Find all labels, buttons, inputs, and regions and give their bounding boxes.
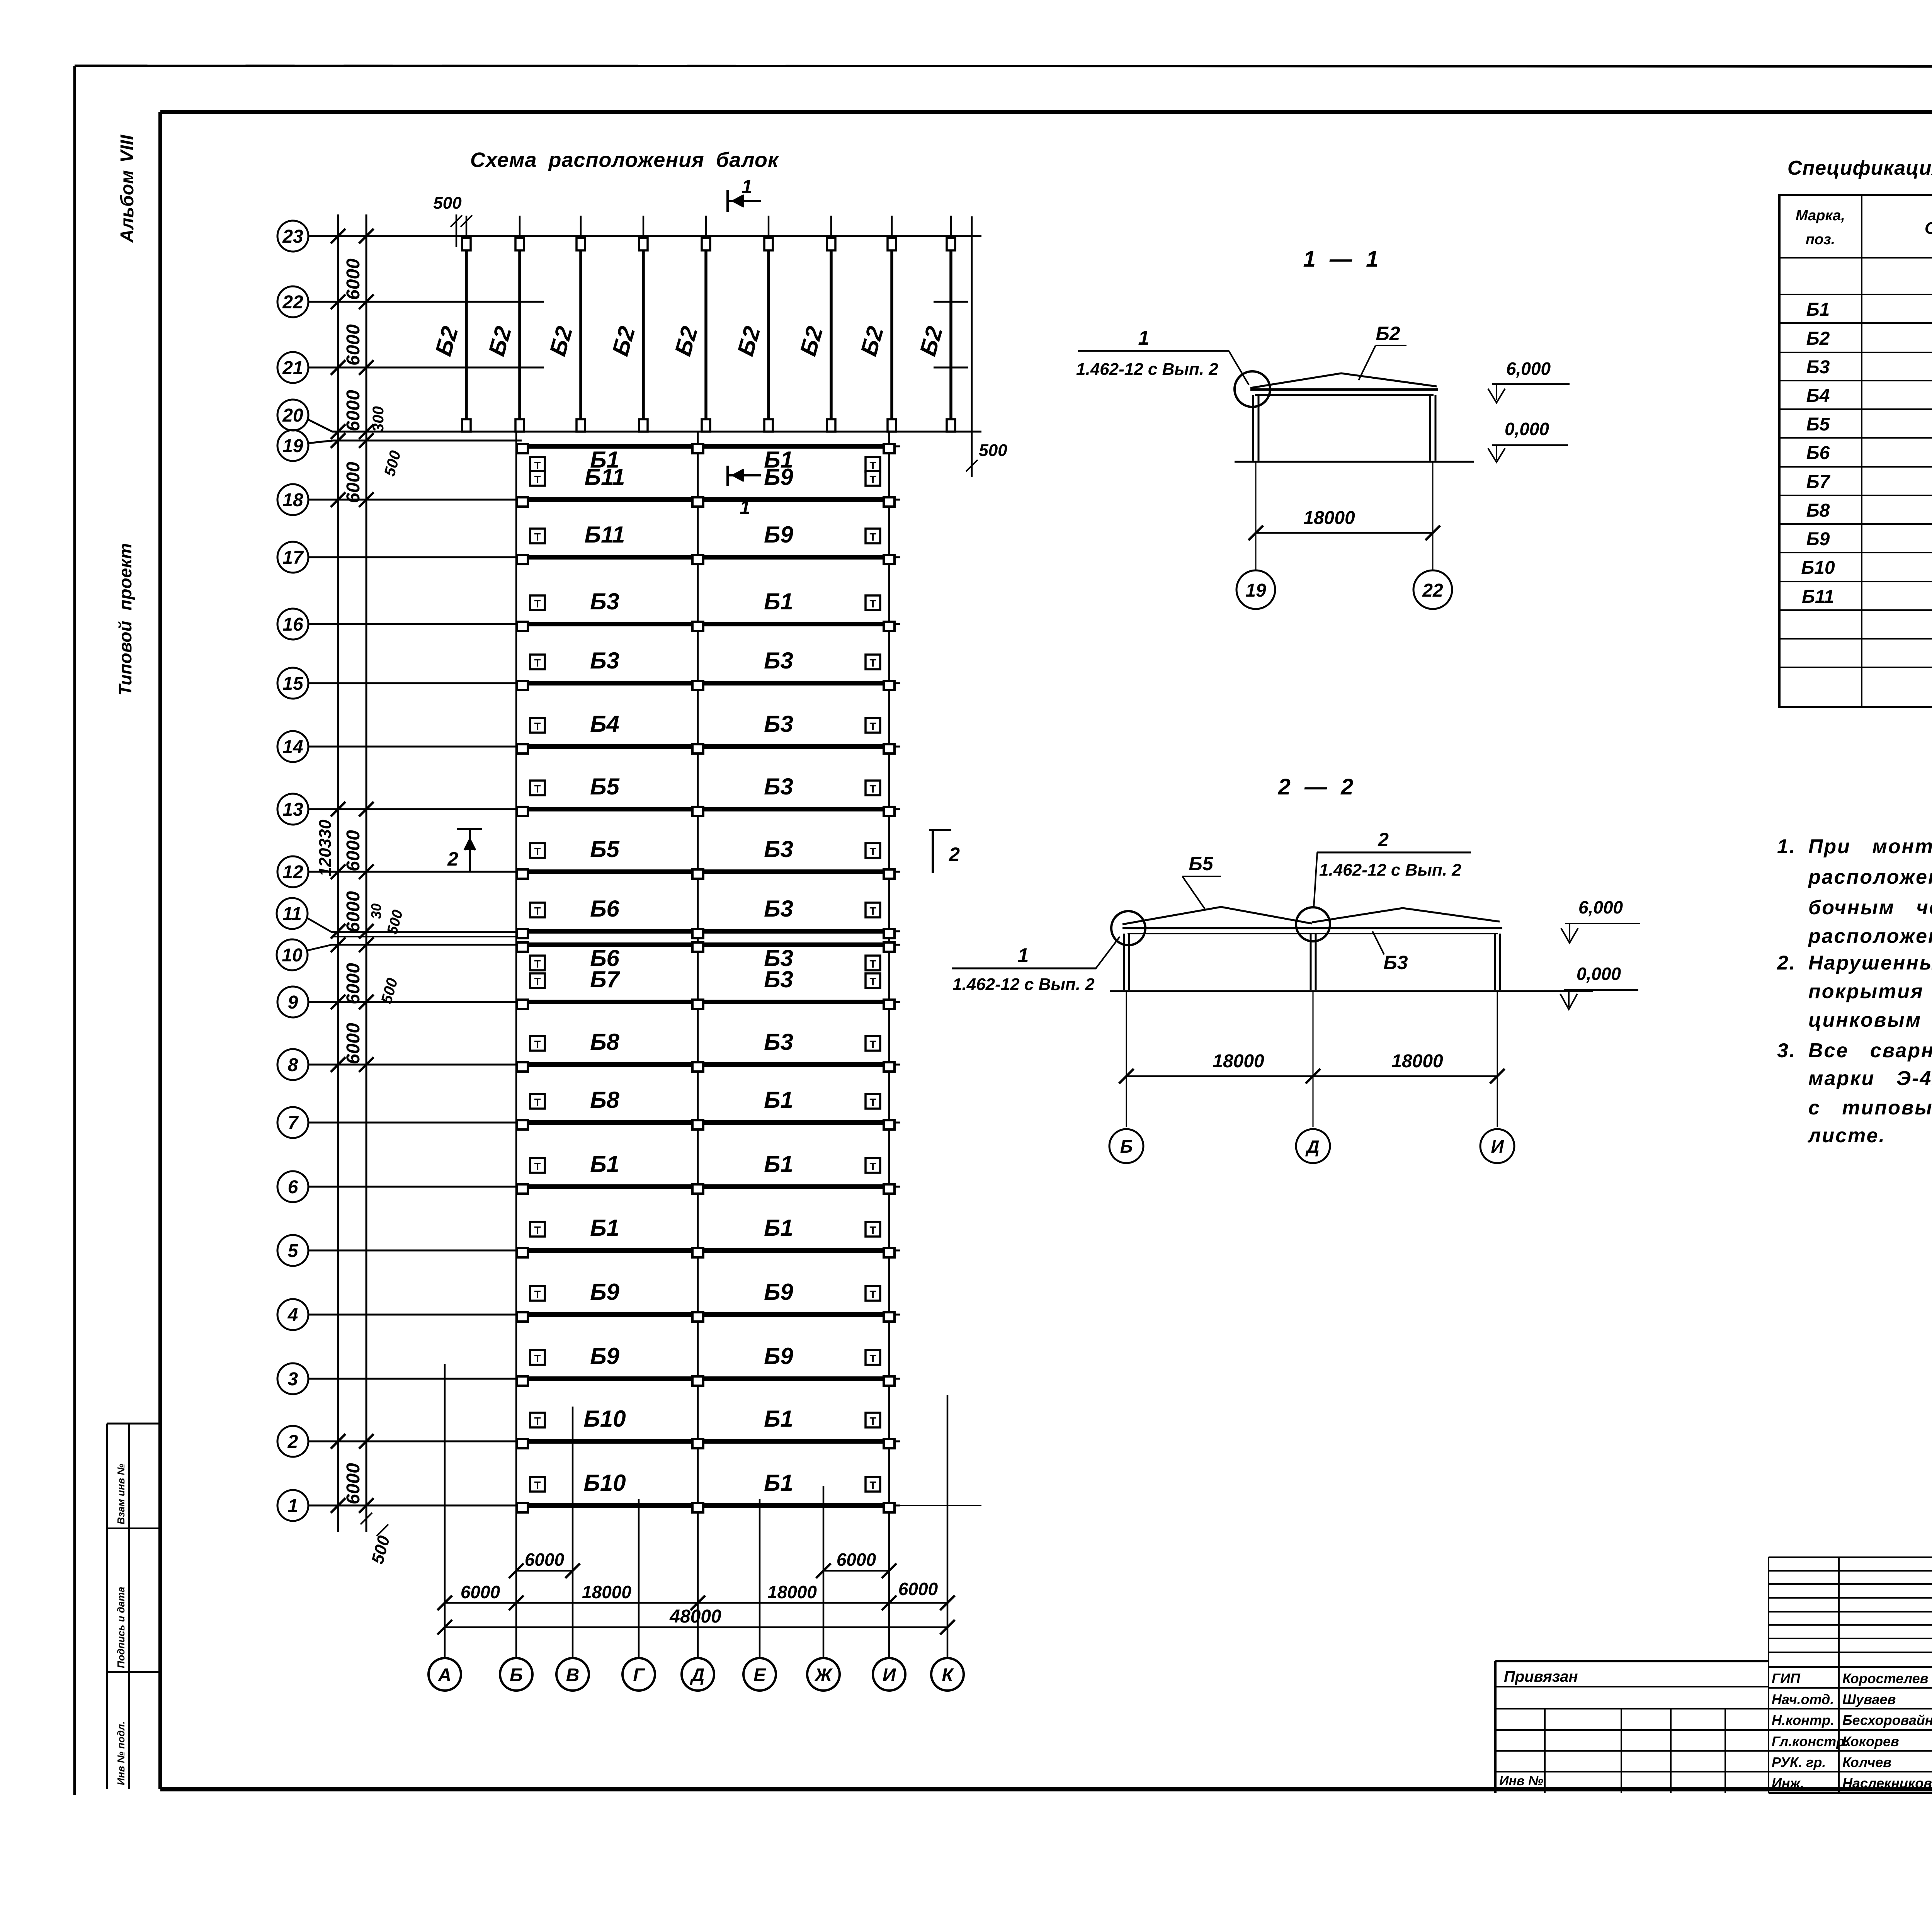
extra axis line near K bbox=[971, 216, 973, 477]
svg-text:Б1: Б1 bbox=[764, 1151, 793, 1177]
bottom total dimension 48000 bbox=[445, 1626, 947, 1628]
svg-text:6,000: 6,000 bbox=[1578, 897, 1623, 917]
axis line 22 bbox=[308, 301, 544, 303]
svg-text:Обозначение: Обозначение bbox=[1925, 219, 1932, 238]
beam row axis 15 bbox=[277, 668, 308, 699]
svg-text:Б9: Б9 bbox=[590, 1279, 619, 1305]
svg-text:0,000: 0,000 bbox=[1505, 419, 1549, 439]
svg-text:12: 12 bbox=[282, 862, 303, 883]
beam Б1 row 19 left bbox=[522, 444, 692, 449]
beam row axis 9 bbox=[277, 987, 308, 1017]
svg-text:Наслекникова: Наслекникова bbox=[1842, 1775, 1932, 1791]
svg-text:Г: Г bbox=[633, 1665, 645, 1686]
beam row axis 18 bbox=[277, 484, 308, 515]
beam row axis 13 bbox=[277, 794, 308, 825]
svg-text:500: 500 bbox=[979, 441, 1007, 460]
svg-text:500: 500 bbox=[433, 194, 462, 213]
svg-text:Т: Т bbox=[869, 905, 876, 917]
axis Zh vertical bbox=[823, 1486, 825, 1658]
svg-text:поз.: поз. bbox=[1806, 231, 1835, 248]
section mark 2 left bbox=[457, 828, 482, 830]
title block left extension bbox=[1494, 1661, 1497, 1793]
detail circle left section 2-2 bbox=[1111, 911, 1145, 945]
svg-text:1.: 1. bbox=[1777, 835, 1796, 858]
svg-text:Гл.констр.: Гл.констр. bbox=[1772, 1733, 1849, 1749]
svg-text:Т: Т bbox=[869, 958, 876, 970]
svg-text:Т: Т bbox=[869, 1479, 876, 1491]
svg-text:Т: Т bbox=[534, 1352, 541, 1364]
svg-text:Б3: Б3 bbox=[764, 896, 793, 922]
svg-text:Б1: Б1 bbox=[764, 589, 793, 614]
svg-text:20: 20 bbox=[282, 405, 303, 426]
svg-text:1: 1 bbox=[1018, 944, 1029, 967]
axis circle Б bbox=[500, 1658, 532, 1691]
svg-text:6,000: 6,000 bbox=[1506, 359, 1551, 379]
svg-text:Т: Т bbox=[534, 1479, 541, 1491]
beam row axis 7 bbox=[277, 1107, 308, 1138]
svg-text:И: И bbox=[883, 1665, 896, 1686]
svg-text:Б4: Б4 bbox=[590, 711, 619, 737]
svg-text:Б10: Б10 bbox=[583, 1470, 626, 1496]
svg-text:1.462-12 с Вып. 2: 1.462-12 с Вып. 2 bbox=[1076, 360, 1218, 379]
beam Б9 row 4 left bbox=[522, 1312, 692, 1317]
svg-text:16: 16 bbox=[282, 614, 303, 635]
beam B2 #8 bbox=[891, 216, 893, 239]
svg-text:6000: 6000 bbox=[837, 1550, 876, 1570]
svg-text:23: 23 bbox=[282, 226, 303, 247]
beam Б9 row 17 right bbox=[704, 555, 883, 560]
svg-text:Б9: Б9 bbox=[590, 1343, 619, 1369]
beam Б9 row 18 right bbox=[704, 497, 883, 502]
beam Б3 row 13 right bbox=[704, 807, 883, 811]
beam Б3 row 8 right bbox=[704, 1062, 883, 1067]
svg-text:Т: Т bbox=[534, 459, 541, 471]
axis 1 extension right bbox=[900, 1505, 981, 1506]
beam Б9 row 3 left bbox=[522, 1376, 692, 1381]
beam row axis 17 bbox=[277, 542, 308, 573]
svg-text:Б3: Б3 bbox=[590, 589, 619, 614]
axis circle В bbox=[556, 1658, 589, 1691]
svg-text:Б7: Б7 bbox=[1806, 472, 1831, 492]
svg-text:Б3: Б3 bbox=[590, 648, 619, 674]
svg-text:Б9: Б9 bbox=[764, 464, 793, 490]
svg-text:10: 10 bbox=[282, 945, 303, 966]
beam B2 #3 bbox=[580, 216, 582, 239]
beam Б6 row 11 left bbox=[522, 929, 692, 934]
svg-text:Т: Т bbox=[869, 720, 876, 732]
svg-text:6000: 6000 bbox=[898, 1579, 938, 1599]
svg-text:9: 9 bbox=[288, 992, 298, 1013]
svg-text:Б11: Б11 bbox=[1802, 587, 1834, 607]
axis circle Д bbox=[682, 1658, 714, 1691]
beam Б11 row 17 left bbox=[522, 555, 692, 560]
svg-text:Схема расположения балок: Схема расположения балок bbox=[470, 148, 779, 172]
beam B2 #6 bbox=[768, 216, 770, 239]
section 2-2 roof left span bbox=[1122, 907, 1312, 924]
svg-text:Коростелев: Коростелев bbox=[1842, 1670, 1928, 1686]
section 2-2 roof right span bbox=[1312, 908, 1500, 922]
svg-text:15: 15 bbox=[282, 674, 304, 694]
beam row axis 11 bbox=[277, 898, 308, 929]
beam joint tick bbox=[502, 301, 537, 303]
svg-text:Б3: Б3 bbox=[764, 648, 793, 674]
svg-text:Спецификация элементов к схеме: Спецификация элементов к схеме расположе… bbox=[1787, 157, 1932, 179]
beam Б9 row 4 right bbox=[704, 1312, 883, 1317]
svg-text:Б4: Б4 bbox=[1806, 386, 1830, 406]
beam row axis 12 bbox=[277, 856, 308, 887]
svg-text:Т: Т bbox=[869, 598, 876, 610]
svg-text:К: К bbox=[942, 1665, 954, 1686]
svg-text:Д: Д bbox=[690, 1665, 705, 1686]
svg-text:0,000: 0,000 bbox=[1577, 964, 1621, 984]
svg-text:листе.: листе. bbox=[1807, 1124, 1886, 1147]
beam B2 #9 bbox=[950, 216, 952, 239]
svg-text:Нач.отд.: Нач.отд. bbox=[1772, 1691, 1834, 1707]
svg-text:бочным чертежам и знака ор: бочным чертежам и знака ориентации на сх… bbox=[1808, 896, 1932, 919]
svg-text:При монтаже балок особое в: При монтаже балок особое внимание обрати… bbox=[1808, 835, 1932, 858]
svg-text:марки Э-42А по ГОСТу 946: марки Э-42А по ГОСТу 9467-75 в соответст… bbox=[1808, 1067, 1932, 1090]
svg-text:18: 18 bbox=[282, 490, 303, 510]
beam Б1 row 5 right bbox=[704, 1248, 883, 1253]
svg-text:Б3: Б3 bbox=[764, 711, 793, 737]
sidebar table left bbox=[106, 1424, 108, 1789]
svg-text:Т: Т bbox=[534, 473, 541, 485]
svg-text:Н.контр.: Н.контр. bbox=[1772, 1712, 1834, 1728]
svg-text:Т: Т bbox=[534, 976, 541, 988]
svg-text:Б7: Б7 bbox=[590, 966, 620, 992]
svg-text:Т: Т bbox=[869, 1288, 876, 1300]
axis line 20 bbox=[308, 419, 981, 432]
svg-text:2: 2 bbox=[287, 1432, 298, 1452]
svg-text:Шуваев: Шуваев bbox=[1842, 1691, 1896, 1707]
svg-text:Т: Т bbox=[869, 1096, 876, 1108]
svg-text:22: 22 bbox=[1422, 580, 1443, 601]
svg-text:Б1: Б1 bbox=[764, 1087, 793, 1113]
axis E vertical bbox=[759, 1499, 761, 1658]
svg-text:Т: Т bbox=[534, 783, 541, 795]
axis D vertical bbox=[697, 432, 699, 1658]
svg-text:Т: Т bbox=[869, 845, 876, 857]
beam B2 #7 bbox=[830, 216, 832, 239]
section 2-2 ground line bbox=[1110, 990, 1593, 992]
svg-text:Т: Т bbox=[534, 1288, 541, 1300]
svg-text:Инв № подл.: Инв № подл. bbox=[115, 1721, 127, 1785]
svg-text:6000: 6000 bbox=[343, 390, 364, 431]
beam Б1 row 6 right bbox=[704, 1184, 883, 1189]
svg-text:Т: Т bbox=[534, 1096, 541, 1108]
svg-text:Б1: Б1 bbox=[1806, 299, 1830, 320]
svg-text:Б3: Б3 bbox=[1383, 952, 1408, 973]
outer border left bbox=[73, 66, 76, 1795]
axis circle I section bbox=[1480, 1129, 1514, 1163]
bottom dimension line 6000 Zh-I bbox=[823, 1570, 889, 1572]
svg-text:Т: Т bbox=[869, 1415, 876, 1427]
svg-text:Колчев: Колчев bbox=[1842, 1754, 1891, 1770]
svg-text:18000: 18000 bbox=[767, 1582, 817, 1602]
beam joint tick bbox=[449, 367, 484, 369]
svg-text:120330: 120330 bbox=[316, 820, 335, 876]
svg-text:Б3: Б3 bbox=[764, 774, 793, 799]
svg-text:Б6: Б6 bbox=[590, 896, 619, 922]
section 1-1 column right bbox=[1429, 395, 1431, 461]
svg-text:3.: 3. bbox=[1777, 1039, 1796, 1062]
svg-text:11: 11 bbox=[282, 904, 302, 924]
sidebar table middle bbox=[128, 1424, 130, 1789]
svg-text:Подпись и дата: Подпись и дата bbox=[115, 1587, 127, 1668]
axis circle 23 bbox=[277, 221, 308, 252]
svg-text:6000: 6000 bbox=[461, 1582, 500, 1602]
svg-text:Б8: Б8 bbox=[590, 1029, 619, 1055]
section 2-2 axis lines below bbox=[1126, 991, 1127, 1127]
svg-text:Б1: Б1 bbox=[764, 1470, 793, 1496]
svg-text:3: 3 bbox=[288, 1369, 298, 1390]
sidebar table top bbox=[107, 1423, 160, 1425]
svg-text:Т: Т bbox=[534, 531, 541, 543]
beam Б8 row 8 left bbox=[522, 1062, 692, 1067]
beam row axis 1 bbox=[277, 1490, 308, 1521]
beam Б3 row 14 right bbox=[704, 744, 883, 749]
beam Б9 row 3 right bbox=[704, 1376, 883, 1381]
svg-text:6000: 6000 bbox=[343, 891, 364, 932]
svg-text:Б5: Б5 bbox=[1806, 414, 1830, 435]
section 1-1 ground line bbox=[1235, 461, 1474, 463]
axis I vertical bbox=[888, 432, 890, 1658]
beam Б1 row 6 left bbox=[522, 1184, 692, 1189]
svg-text:Б5: Б5 bbox=[590, 836, 620, 862]
svg-text:Б8: Б8 bbox=[590, 1087, 619, 1113]
beam row axis 2 bbox=[277, 1426, 308, 1457]
bottom dimension line 6000 B-V bbox=[516, 1570, 573, 1572]
svg-text:6000: 6000 bbox=[343, 324, 364, 366]
svg-text:расположение закладных элеме: расположение закладных элементов согласн… bbox=[1808, 866, 1932, 888]
beam Б3 row 9 right bbox=[704, 1000, 883, 1004]
section mark 1 lower bbox=[726, 466, 729, 486]
beam row axis 14 bbox=[277, 731, 308, 762]
svg-text:Т: Т bbox=[534, 1160, 541, 1172]
svg-text:Д: Д bbox=[1305, 1136, 1319, 1157]
svg-text:5: 5 bbox=[288, 1241, 299, 1261]
section 2-2 beam line bbox=[1122, 927, 1502, 929]
svg-text:6000: 6000 bbox=[343, 1023, 364, 1064]
beam Б1 row 5 left bbox=[522, 1248, 692, 1253]
detail circle middle section 2-2 bbox=[1296, 907, 1330, 941]
svg-text:8: 8 bbox=[288, 1055, 298, 1075]
beam Б3 row 11 right bbox=[704, 929, 883, 934]
svg-text:Т: Т bbox=[869, 1224, 876, 1236]
svg-text:18000: 18000 bbox=[1213, 1051, 1264, 1072]
svg-text:Б1: Б1 bbox=[590, 1215, 619, 1241]
svg-text:Взам инв №: Взам инв № bbox=[115, 1464, 127, 1524]
axis circle 22 section bbox=[1413, 570, 1452, 609]
axis circle А bbox=[429, 1658, 461, 1691]
svg-text:6: 6 bbox=[288, 1177, 298, 1197]
svg-text:2: 2 bbox=[1378, 829, 1389, 850]
svg-text:1 — 1: 1 — 1 bbox=[1303, 247, 1379, 272]
axis G vertical bbox=[638, 1499, 640, 1658]
detail circle section 1-1 bbox=[1235, 371, 1270, 407]
svg-text:Нарушенные монтажной сваркой: Нарушенные монтажной сваркой поверхности… bbox=[1808, 952, 1932, 974]
beam Б3 row 15 right bbox=[704, 681, 883, 685]
beam Б5 row 12 left bbox=[522, 869, 692, 874]
beam Б1 row 2 right bbox=[704, 1439, 883, 1444]
axis circle Г bbox=[622, 1658, 655, 1691]
svg-text:Т: Т bbox=[869, 1352, 876, 1364]
svg-text:Кокорев: Кокорев bbox=[1842, 1733, 1899, 1749]
beam row axis 16 bbox=[277, 609, 308, 640]
svg-text:Е: Е bbox=[753, 1665, 767, 1686]
svg-text:Т: Т bbox=[869, 473, 876, 485]
svg-text:Т: Т bbox=[534, 845, 541, 857]
beam Б11 row 18 left bbox=[522, 497, 692, 502]
beam Б7 row 9 left bbox=[522, 1000, 692, 1004]
svg-text:1.462-12 с Вып. 2: 1.462-12 с Вып. 2 bbox=[952, 975, 1095, 994]
axis circle 22 bbox=[277, 286, 308, 317]
svg-text:Б: Б bbox=[510, 1665, 523, 1686]
svg-text:Б8: Б8 bbox=[1806, 500, 1830, 521]
svg-text:Б1: Б1 bbox=[590, 1151, 619, 1177]
svg-text:Бесхоровайный: Бесхоровайный bbox=[1842, 1712, 1932, 1728]
svg-text:Т: Т bbox=[869, 531, 876, 543]
svg-text:4: 4 bbox=[287, 1305, 298, 1325]
svg-text:2.: 2. bbox=[1777, 952, 1796, 974]
svg-text:6000: 6000 bbox=[343, 1463, 364, 1504]
svg-text:22: 22 bbox=[282, 292, 303, 313]
beam B2 #1 bbox=[466, 216, 468, 239]
beam B2 #4 bbox=[643, 216, 645, 239]
svg-text:Т: Т bbox=[534, 905, 541, 917]
sidebar row line 2 bbox=[107, 1671, 160, 1673]
axis circle 21 bbox=[277, 352, 308, 383]
svg-text:Т: Т bbox=[869, 783, 876, 795]
axis circle D section bbox=[1296, 1129, 1330, 1163]
svg-text:Б6: Б6 bbox=[1806, 443, 1830, 463]
outer border top bbox=[75, 66, 1932, 66]
svg-text:покрытия и сварные швы дол: покрытия и сварные швы должны быть защищ… bbox=[1808, 980, 1932, 1003]
svg-text:Б3: Б3 bbox=[764, 1029, 793, 1055]
beam Б3 row 12 right bbox=[704, 869, 883, 874]
svg-text:Б10: Б10 bbox=[583, 1406, 626, 1432]
svg-text:19: 19 bbox=[1245, 580, 1266, 601]
svg-text:Т: Т bbox=[869, 1038, 876, 1050]
svg-text:Б9: Б9 bbox=[764, 1343, 793, 1369]
beam row axis 4 bbox=[277, 1299, 308, 1330]
section 1-1 beam B2 bbox=[1250, 373, 1437, 388]
frame left bbox=[158, 112, 162, 1789]
axis circle B section bbox=[1109, 1129, 1143, 1163]
svg-text:300: 300 bbox=[370, 406, 387, 432]
svg-text:6000: 6000 bbox=[343, 963, 364, 1004]
svg-text:48000: 48000 bbox=[669, 1606, 721, 1627]
beam Б10 row 2 left bbox=[522, 1439, 692, 1444]
axis circle 19 section bbox=[1236, 570, 1275, 609]
svg-text:14: 14 bbox=[282, 737, 303, 757]
svg-text:6000: 6000 bbox=[343, 462, 364, 503]
beam row axis 8 bbox=[277, 1049, 308, 1080]
svg-text:1: 1 bbox=[1138, 327, 1150, 349]
svg-text:Все сварные соединения выпо: Все сварные соединения выполнять электро… bbox=[1808, 1039, 1932, 1062]
axis line 21 bbox=[308, 367, 544, 369]
beam row axis 3 bbox=[277, 1363, 308, 1394]
section 1-1 dim line bbox=[1256, 532, 1433, 534]
beam B2 #5 bbox=[705, 216, 707, 239]
svg-text:расположения балок.: расположения балок. bbox=[1808, 925, 1932, 947]
svg-text:Б3: Б3 bbox=[764, 966, 793, 992]
sidebar row line 1 bbox=[107, 1527, 160, 1529]
svg-text:17: 17 bbox=[282, 548, 304, 568]
svg-text:6000: 6000 bbox=[525, 1550, 565, 1570]
beam Б6 row 10 left bbox=[522, 942, 692, 947]
svg-text:Б2: Б2 bbox=[1806, 328, 1830, 349]
svg-text:Ж: Ж bbox=[814, 1665, 833, 1686]
title block bbox=[1769, 1556, 1932, 1558]
svg-text:цинковым протекторным грунто: цинковым протекторным грунтом. bbox=[1808, 1009, 1932, 1031]
beam joint tick bbox=[449, 301, 484, 303]
beam joint tick bbox=[934, 367, 968, 369]
svg-text:1: 1 bbox=[288, 1496, 298, 1516]
svg-text:30: 30 bbox=[368, 903, 384, 919]
section mark 2 right bbox=[929, 829, 951, 831]
svg-text:ГИП: ГИП bbox=[1772, 1670, 1801, 1686]
beam Б3 row 10 right bbox=[704, 942, 883, 947]
beam Б1 row 16 right bbox=[704, 622, 883, 626]
bottom dimension chain A-K bbox=[445, 1602, 947, 1604]
svg-text:13: 13 bbox=[282, 799, 303, 820]
svg-text:В: В bbox=[566, 1665, 580, 1686]
axis A vertical bbox=[444, 1364, 446, 1658]
beam Б10 row 1 left bbox=[522, 1503, 692, 1508]
svg-text:21: 21 bbox=[282, 358, 303, 378]
beam joint tick bbox=[502, 367, 537, 369]
svg-text:Т: Т bbox=[534, 1415, 541, 1427]
svg-text:А: А bbox=[438, 1665, 452, 1686]
svg-text:Привязан: Привязан bbox=[1504, 1668, 1578, 1685]
svg-text:Б5: Б5 bbox=[590, 774, 620, 799]
svg-text:Б2: Б2 bbox=[1376, 323, 1400, 344]
section 2-2 columns bbox=[1123, 934, 1125, 990]
svg-text:7: 7 bbox=[288, 1113, 299, 1133]
svg-text:Б9: Б9 bbox=[1806, 529, 1830, 549]
svg-text:18000: 18000 bbox=[1391, 1051, 1443, 1072]
svg-text:Б9: Б9 bbox=[764, 1279, 793, 1305]
svg-text:Б: Б bbox=[1120, 1136, 1133, 1157]
svg-text:Инж.: Инж. bbox=[1772, 1775, 1804, 1791]
svg-text:Т: Т bbox=[534, 657, 541, 669]
section 2-2 dim line bbox=[1126, 1075, 1497, 1077]
svg-text:2 — 2: 2 — 2 bbox=[1278, 774, 1354, 799]
axis circle И bbox=[873, 1658, 905, 1691]
svg-text:Т: Т bbox=[534, 720, 541, 732]
svg-text:Т: Т bbox=[869, 976, 876, 988]
svg-text:И: И bbox=[1491, 1136, 1504, 1157]
beam row axis 10 bbox=[277, 939, 308, 970]
beam Б3 row 15 left bbox=[522, 681, 692, 685]
beam Б4 row 14 left bbox=[522, 744, 692, 749]
beam joint tick bbox=[934, 301, 968, 303]
svg-text:с типовыми деталями, замарк: с типовыми деталями, замаркированными на… bbox=[1808, 1097, 1932, 1119]
svg-text:Т: Т bbox=[534, 1224, 541, 1236]
frame top bbox=[160, 110, 1932, 114]
svg-text:Т: Т bbox=[869, 657, 876, 669]
beam B2 #2 bbox=[519, 216, 521, 239]
svg-text:Б3: Б3 bbox=[1806, 357, 1830, 378]
axis circle К bbox=[931, 1658, 964, 1691]
left dim line 1 bbox=[337, 214, 339, 1532]
svg-text:Т: Т bbox=[869, 1160, 876, 1172]
svg-text:18000: 18000 bbox=[1303, 508, 1355, 528]
beam Б8 row 7 left bbox=[522, 1120, 692, 1125]
dim 500 top boundary bbox=[456, 214, 457, 247]
svg-text:Марка,: Марка, bbox=[1796, 208, 1845, 224]
